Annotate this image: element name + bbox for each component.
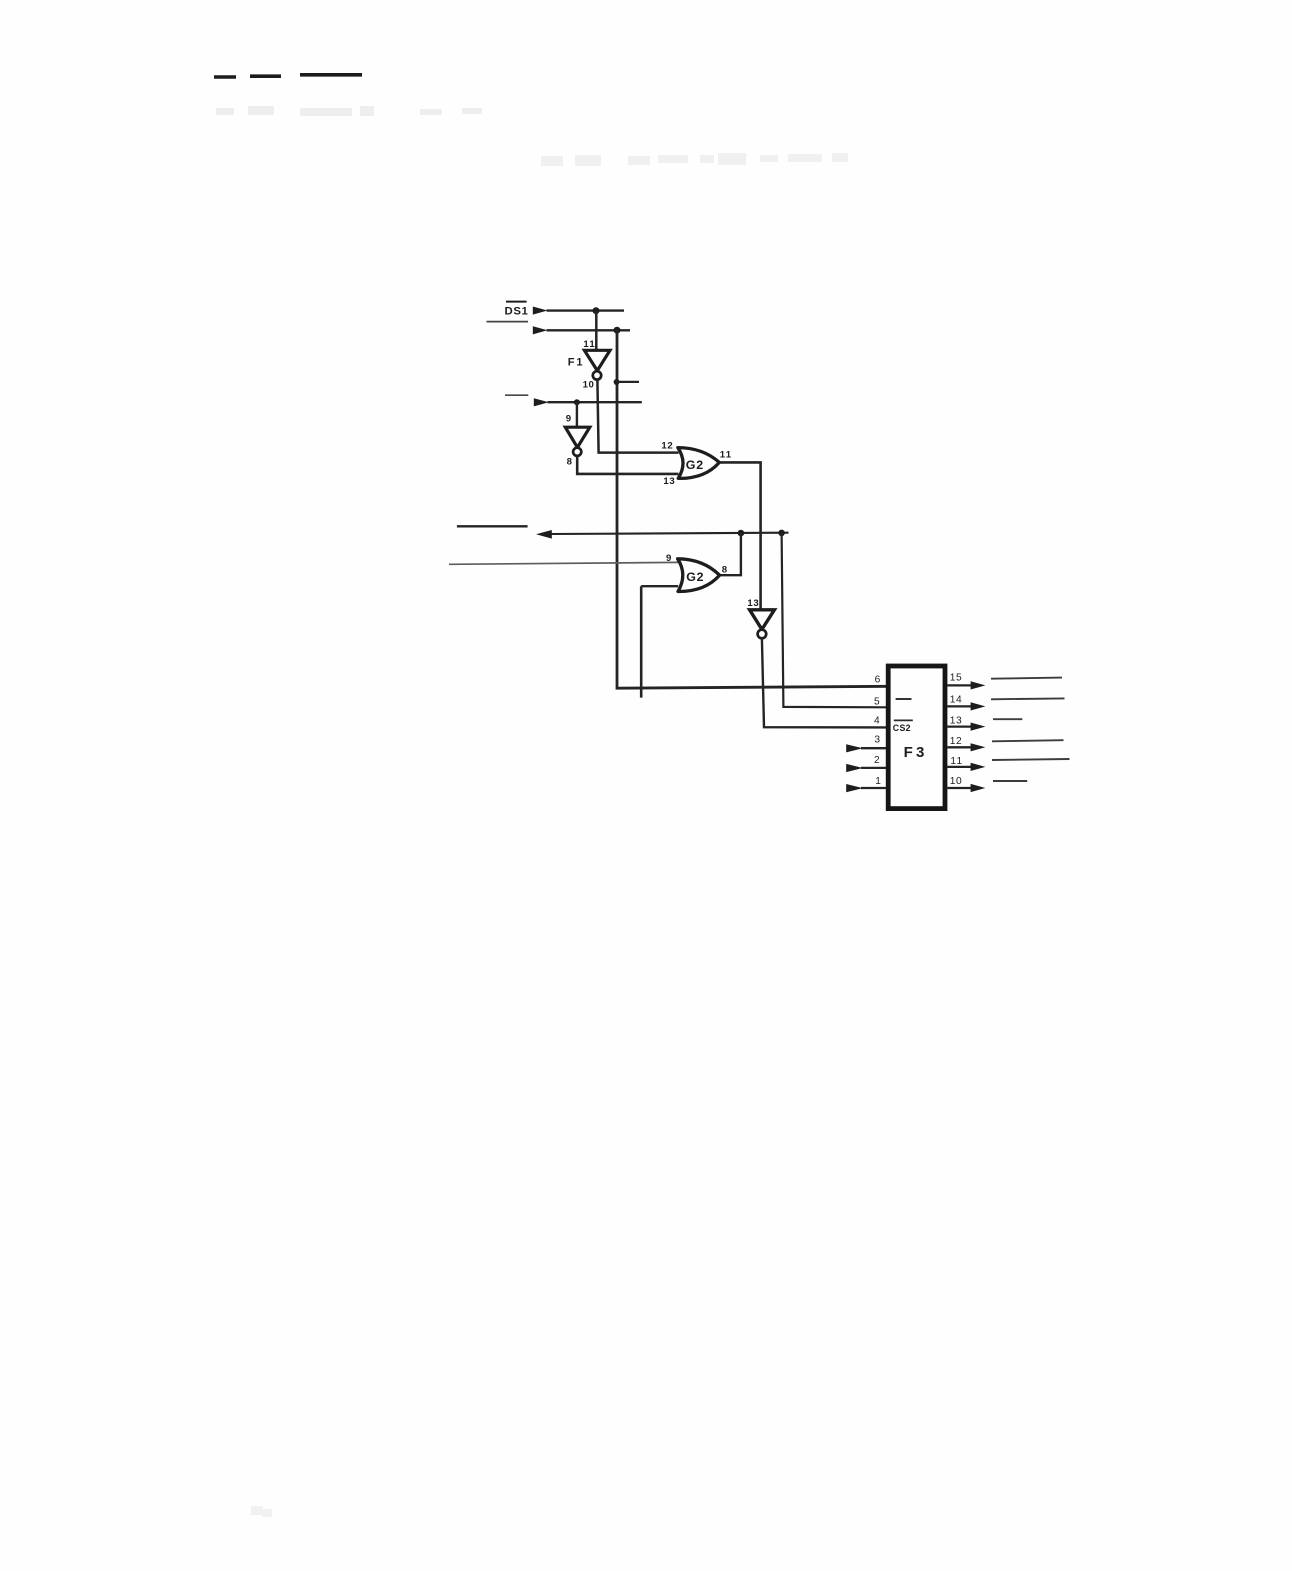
- output wire pin 14: [947, 705, 971, 707]
- faded line after pin 14: [991, 697, 1065, 700]
- wire G2b lower input from vertical: [641, 585, 678, 587]
- wire into pin 1: [861, 787, 886, 789]
- svg-text:11: 11: [583, 339, 596, 350]
- svg-text:12: 12: [661, 441, 673, 452]
- wire DS1 node down to F1 input: [595, 311, 598, 351]
- faded line after pin 15: [991, 678, 1062, 679]
- faded caption text row: [541, 153, 848, 166]
- output wire pin 12: [947, 746, 971, 748]
- output wire pin 10: [947, 787, 971, 789]
- inverter F1: [584, 350, 610, 379]
- svg-text:12: 12: [950, 736, 962, 747]
- svg-text:5: 5: [874, 697, 880, 708]
- faded line after pin 10: [993, 780, 1027, 782]
- wire input3 horizontal: [548, 401, 642, 403]
- svg-text:F1: F1: [568, 356, 584, 368]
- input arrow DS1: [533, 307, 548, 315]
- faded line after pin 12: [992, 740, 1064, 741]
- output arrow pin 12: [971, 743, 986, 751]
- faded heading text row: [216, 106, 482, 116]
- wire F1 output down then right to G2a pin 12: [597, 380, 678, 453]
- faded line after pin 13: [993, 718, 1022, 720]
- svg-text:G2: G2: [686, 458, 704, 472]
- svg-text:6: 6: [875, 675, 881, 686]
- node junction with stub on long vertical: [614, 379, 639, 385]
- wire from node down to F3 pin 5: [782, 533, 887, 707]
- wire U3 output down then right to F3 pin 4: [762, 638, 886, 727]
- output arrow pin 14: [971, 702, 986, 710]
- or-gate G2b: [678, 559, 720, 592]
- svg-text:10: 10: [583, 380, 595, 391]
- heading underline dash 2: [250, 74, 281, 78]
- inverter U3: [750, 610, 775, 639]
- svg-text:11: 11: [720, 450, 733, 461]
- svg-text:8: 8: [567, 456, 573, 467]
- svg-text:4: 4: [874, 716, 880, 727]
- wire long thin input to G2b pin 9: [449, 562, 678, 564]
- chip F3 body: [888, 666, 945, 809]
- or-gate G2a: [678, 448, 720, 479]
- svg-text:2: 2: [874, 755, 880, 766]
- output arrow pin 15: [971, 681, 986, 689]
- faded line after pin 11: [992, 759, 1070, 760]
- wire vertical below G2b lower input: [640, 586, 643, 697]
- input arrow 2: [533, 326, 548, 334]
- wire into pin 2: [861, 767, 886, 769]
- output wire pin 11: [947, 766, 971, 768]
- svg-text:13: 13: [663, 476, 675, 487]
- svg-text:11: 11: [950, 756, 963, 767]
- faint bottom-left smudge: [251, 1506, 272, 1517]
- wire from node down then left to G2b output: [720, 533, 741, 575]
- output arrow pin 13: [971, 723, 986, 731]
- svg-text:13: 13: [747, 598, 759, 609]
- svg-text:CS2: CS2: [893, 723, 911, 733]
- input arrow 3: [534, 398, 549, 406]
- svg-text:G2: G2: [686, 570, 704, 584]
- chip internal dash: [896, 698, 912, 700]
- input arrow pin 1: [846, 784, 863, 792]
- wire G2a output right then down to inverter 13: [719, 462, 760, 610]
- wire input3 node down to inverter 9: [576, 402, 578, 427]
- output wire pin 13: [947, 725, 971, 727]
- faded label underline above input 3: [505, 394, 528, 396]
- dark line stub left of return arrow: [457, 525, 528, 527]
- heading underline dash 1: [214, 75, 236, 79]
- input arrow pin 2: [846, 764, 863, 772]
- wire long vertical from input2 node down and right to F3 pin 6: [617, 330, 893, 688]
- svg-text:DS1: DS1: [505, 306, 529, 318]
- faded label underline below DS1: [487, 321, 529, 323]
- svg-text:9: 9: [566, 413, 571, 424]
- svg-text:10: 10: [950, 776, 962, 787]
- svg-text:F3: F3: [904, 744, 928, 761]
- svg-text:3: 3: [874, 734, 880, 745]
- svg-text:15: 15: [950, 673, 962, 684]
- heading underline dash 3: [300, 73, 362, 77]
- signal label DS1: [505, 302, 529, 318]
- output wire pin 15: [947, 684, 971, 686]
- output arrow pin 11: [971, 763, 986, 771]
- svg-text:1: 1: [875, 776, 881, 787]
- node junction on input3 wire: [574, 399, 580, 405]
- output arrow pin 10: [971, 784, 986, 792]
- node junction on DS1 wire: [593, 307, 600, 314]
- svg-text:14: 14: [950, 695, 962, 706]
- wire into pin 3: [861, 747, 886, 749]
- wire return line: [551, 533, 789, 534]
- node junction G2b output to return line: [738, 530, 745, 537]
- svg-text:13: 13: [950, 716, 962, 727]
- wire DS1 horizontal: [547, 309, 625, 311]
- wire input2 horizontal: [547, 329, 631, 331]
- inverter U2: [565, 427, 590, 456]
- wire U2 output down then right to G2a pin 13: [577, 456, 678, 474]
- node junction on input2 wire: [614, 327, 621, 334]
- input arrow pin 3: [846, 744, 863, 752]
- return output arrow pointing left: [536, 530, 552, 539]
- chip internal label CS2 with overline: [893, 720, 913, 733]
- svg-text:8: 8: [722, 564, 728, 575]
- node junction return line to F3 pin 5 branch: [778, 530, 785, 537]
